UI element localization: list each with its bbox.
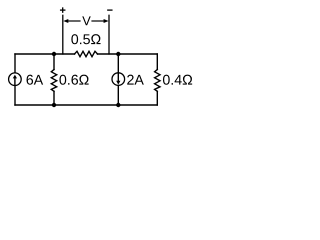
wire right edge lower lead: [156, 91, 158, 105]
current source 2A arrow: [116, 73, 120, 84]
current source 6A circle: [9, 73, 22, 86]
label 0.4Ω: [163, 75, 192, 85]
junction dot bottom 2A: [116, 103, 120, 107]
wire 2A branch lower lead: [117, 86, 119, 105]
wire right edge upper lead: [156, 54, 158, 70]
arrow V left: [63, 19, 80, 23]
junction dot top 2A: [116, 52, 120, 56]
label 0.5Ω: [71, 34, 100, 44]
wire bottom rail: [15, 104, 157, 106]
resistor 0.4Ω zigzag: [155, 70, 160, 92]
voltage tick right: [108, 15, 110, 54]
junction dot top 0.6Ω: [52, 52, 56, 56]
wire 2A branch upper lead: [117, 54, 119, 72]
plus sign: [61, 8, 65, 12]
wire top rail right segment: [98, 53, 158, 55]
wire left edge upper: [14, 54, 16, 72]
label V: [82, 16, 90, 25]
arrow V right: [92, 19, 109, 23]
wire 0.6Ω branch upper lead: [53, 54, 55, 70]
wire left edge lower: [14, 86, 16, 105]
wire top rail left segment: [15, 53, 75, 55]
junction dot bottom 0.6Ω: [52, 103, 56, 107]
label 2A: [127, 75, 144, 85]
label 0.6Ω: [59, 75, 88, 85]
current source 6A arrow: [13, 75, 17, 85]
resistor 0.6Ω zigzag: [51, 70, 56, 92]
minus sign: [108, 9, 112, 11]
voltage tick left: [62, 15, 64, 54]
resistor 0.5Ω zigzag: [75, 51, 98, 56]
current source 2A circle: [112, 73, 125, 86]
label 6A: [27, 75, 44, 85]
wire 0.6Ω branch lower lead: [53, 91, 55, 105]
